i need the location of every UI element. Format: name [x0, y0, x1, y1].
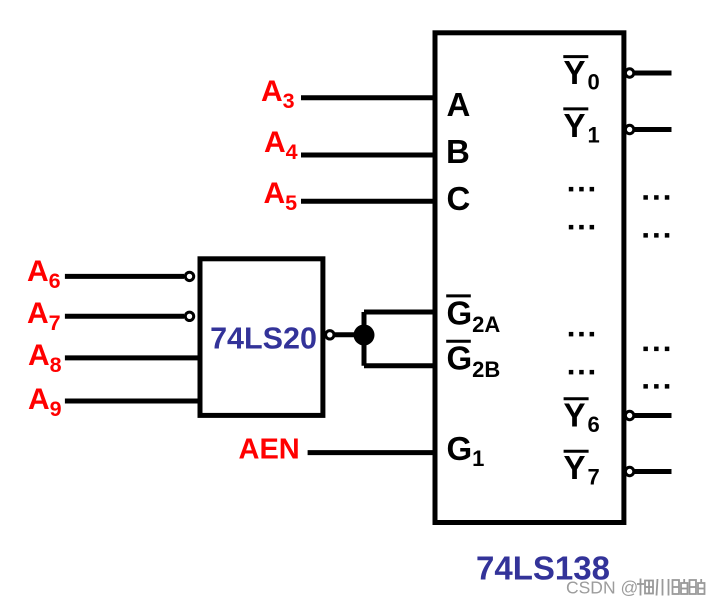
svg-text:A3: A3: [261, 75, 295, 113]
svg-text:A: A: [447, 86, 471, 123]
svg-text:Y6: Y6: [564, 396, 600, 437]
svg-text:C: C: [447, 180, 471, 217]
svg-text:A8: A8: [28, 339, 62, 377]
svg-text:CSDN @: CSDN @: [566, 578, 638, 598]
svg-text:G2B: G2B: [447, 340, 501, 382]
svg-text:74LS20: 74LS20: [210, 322, 317, 356]
svg-text:B: B: [446, 133, 470, 170]
svg-text:A6: A6: [27, 255, 61, 293]
svg-text:AEN: AEN: [239, 434, 300, 466]
svg-text:A5: A5: [264, 177, 298, 215]
svg-text:Y0: Y0: [564, 54, 600, 95]
svg-text:G1: G1: [447, 430, 485, 471]
svg-text:Y1: Y1: [564, 107, 600, 148]
svg-text:G2A: G2A: [447, 294, 501, 336]
svg-text:A9: A9: [28, 383, 62, 421]
svg-text:A4: A4: [264, 126, 298, 164]
svg-text:Y7: Y7: [564, 449, 600, 490]
svg-text:A7: A7: [27, 297, 61, 335]
